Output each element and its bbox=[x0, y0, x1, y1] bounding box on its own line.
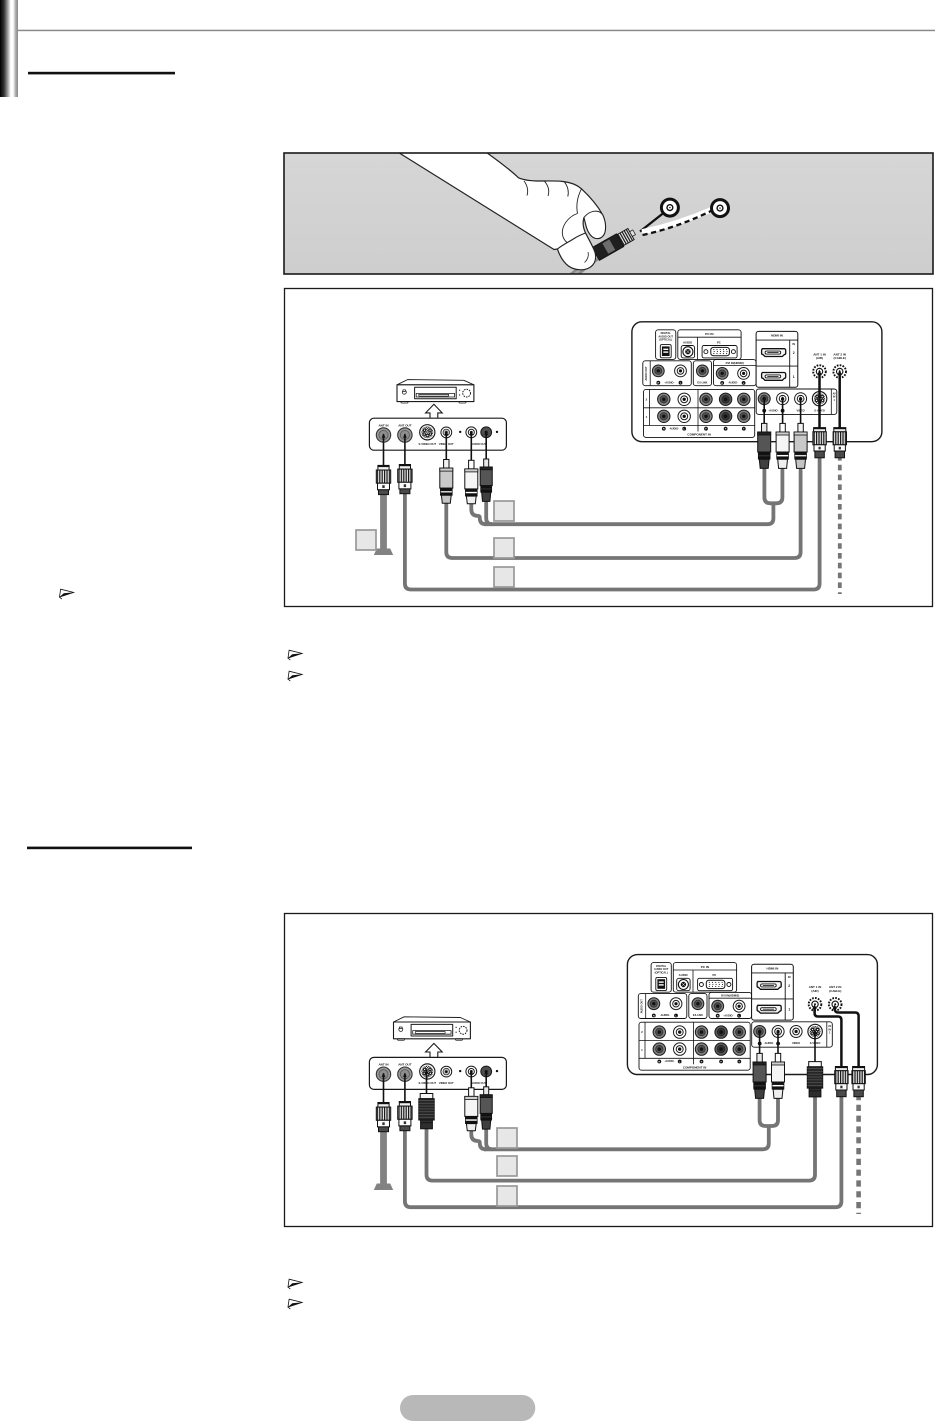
svg-text:IN: IN bbox=[792, 342, 795, 346]
svg-text:EX-LINK: EX-LINK bbox=[697, 381, 707, 384]
svg-text:EX-LINK: EX-LINK bbox=[693, 1014, 703, 1017]
svg-text:ANT IN: ANT IN bbox=[379, 1063, 389, 1067]
svg-text:PC IN: PC IN bbox=[701, 965, 710, 969]
svg-text:(AIR): (AIR) bbox=[816, 356, 823, 360]
svg-text:1: 1 bbox=[793, 375, 795, 379]
svg-text:-AUDIO-: -AUDIO- bbox=[768, 408, 778, 412]
svg-text:(CABLE): (CABLE) bbox=[834, 356, 846, 360]
svg-text:S-VIDEO OUT: S-VIDEO OUT bbox=[419, 442, 437, 446]
svg-text:(CABLE): (CABLE) bbox=[829, 989, 841, 993]
svg-text:AUDIO: AUDIO bbox=[679, 973, 689, 977]
svg-text:S-VIDEO OUT: S-VIDEO OUT bbox=[419, 1081, 437, 1085]
svg-text:(OPTICAL): (OPTICAL) bbox=[659, 338, 672, 342]
svg-text:-AUDIO-: -AUDIO- bbox=[664, 1059, 674, 1063]
svg-text:DVI IN(HDMI2): DVI IN(HDMI2) bbox=[726, 361, 744, 365]
svg-text:PC: PC bbox=[717, 340, 721, 344]
svg-text:HDMI IN: HDMI IN bbox=[771, 334, 784, 338]
svg-text:IN: IN bbox=[788, 975, 791, 979]
svg-text:AUDIO OUT: AUDIO OUT bbox=[641, 999, 644, 1014]
svg-text:AUDIO: AUDIO bbox=[683, 340, 693, 344]
svg-text:PC: PC bbox=[712, 973, 716, 977]
svg-text:PC IN: PC IN bbox=[705, 332, 714, 336]
svg-text:ANT OUT: ANT OUT bbox=[398, 423, 411, 427]
svg-text:-AUDIO-: -AUDIO- bbox=[728, 381, 738, 385]
svg-text:VIDEO: VIDEO bbox=[792, 1041, 800, 1045]
svg-text:(AIR): (AIR) bbox=[811, 989, 818, 993]
svg-text:VIDEO OUT: VIDEO OUT bbox=[439, 1081, 454, 1085]
svg-text:-AUDIO-: -AUDIO- bbox=[664, 380, 674, 384]
svg-text:1: 1 bbox=[788, 1008, 790, 1012]
svg-text:ANT IN: ANT IN bbox=[379, 423, 389, 427]
svg-text:2: 2 bbox=[788, 984, 790, 988]
svg-text:(OPTICAL): (OPTICAL) bbox=[655, 970, 668, 974]
svg-text:2: 2 bbox=[793, 351, 795, 355]
svg-text:ANT OUT: ANT OUT bbox=[398, 1063, 411, 1067]
svg-text:AUDIO OUT: AUDIO OUT bbox=[645, 366, 648, 381]
svg-text:HDMI IN: HDMI IN bbox=[766, 966, 779, 970]
svg-text:AUDIO OUT: AUDIO OUT bbox=[471, 442, 486, 446]
svg-text:-AUDIO-: -AUDIO- bbox=[660, 1013, 670, 1017]
svg-text:AUDIO OUT: AUDIO OUT bbox=[471, 1081, 486, 1085]
svg-text:COMPONENT IN: COMPONENT IN bbox=[683, 1065, 706, 1069]
svg-text:-AUDIO-: -AUDIO- bbox=[723, 1013, 733, 1017]
svg-text:COMPONENT IN: COMPONENT IN bbox=[687, 433, 710, 437]
svg-text:-AUDIO-: -AUDIO- bbox=[669, 426, 679, 430]
svg-text:DVI IN(HDMI2): DVI IN(HDMI2) bbox=[721, 994, 739, 998]
svg-text:-AUDIO-: -AUDIO- bbox=[764, 1041, 774, 1045]
